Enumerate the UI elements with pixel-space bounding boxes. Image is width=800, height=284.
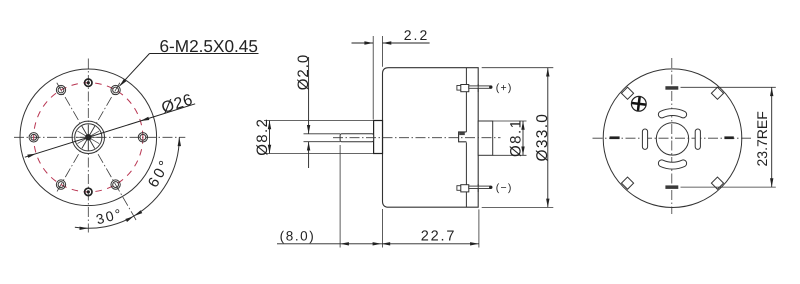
crimp tab lower-right (rear view) <box>711 177 723 189</box>
svg-text:60°: 60° <box>145 156 175 191</box>
vent slot top <box>658 109 686 118</box>
terminal tab (+) <box>457 86 461 91</box>
bearing notch at endbell center <box>459 132 467 142</box>
rim slot right (rear view) <box>724 136 733 139</box>
dimension Ø8.1 extension lines <box>493 120 527 122</box>
dimension (8.0) extension line <box>339 145 341 248</box>
tapped hole M2.5 upper-left (120 deg) <box>56 85 65 94</box>
rear bearing boss circle <box>656 123 688 155</box>
vertical centerline (front view) <box>87 59 89 233</box>
dimension 23.7REF extension lines <box>681 86 776 88</box>
dimension 23.7REF <box>771 87 773 187</box>
svg-text:(8.0): (8.0) <box>280 228 316 243</box>
rim slot left (rear view) <box>610 136 620 139</box>
endbell face line restored over pins <box>477 84 479 92</box>
vent slot bottom <box>658 160 686 169</box>
dimension 22.7 extension lines <box>382 209 384 248</box>
tapped hole M2.5 lower-right (300 deg) <box>111 180 120 189</box>
dimension Ø33.0 <box>547 68 549 208</box>
diagonal centerline 60-240 (front view) <box>57 83 120 192</box>
cross-marked hole (rear view) <box>631 96 646 111</box>
dimension Ø8.2 <box>269 121 271 154</box>
dimension 22.7 <box>381 243 479 245</box>
rear view motor outline circle <box>603 69 742 208</box>
vent slot right <box>695 129 700 149</box>
dimension 2.2 <box>352 42 374 44</box>
svg-text:Ø2.0: Ø2.0 <box>295 54 312 91</box>
tapped hole M2.5 lower-left (240 deg) <box>56 180 65 189</box>
30 deg angular dimension arc <box>75 216 134 228</box>
front view knurled shaft hole <box>86 135 92 141</box>
svg-text:(−): (−) <box>496 182 513 194</box>
svg-text:Ø8.2: Ø8.2 <box>254 118 271 156</box>
svg-text:6-M2.5X0.45: 6-M2.5X0.45 <box>160 36 258 56</box>
dimension Ø8.1 <box>522 121 524 155</box>
svg-text:Ø33.0: Ø33.0 <box>534 113 551 162</box>
dimension Ø33.0 extension lines <box>482 67 554 69</box>
small hole top (90 deg) <box>85 79 92 86</box>
terminal pin (-) <box>469 186 491 188</box>
svg-text:22.7: 22.7 <box>421 228 456 244</box>
front view hub outer circle <box>72 121 104 153</box>
crimp tab upper-left (rear view) <box>621 87 633 99</box>
svg-text:Ø26: Ø26 <box>160 91 195 117</box>
svg-text:Ø8.1: Ø8.1 <box>507 118 524 157</box>
svg-text:2.2: 2.2 <box>404 27 429 43</box>
crimp tab lower-left (rear view) <box>621 177 633 189</box>
tapped hole M2.5 left (180 deg) <box>29 133 38 142</box>
dimension 2.2 extension lines <box>372 36 374 120</box>
svg-text:30°: 30° <box>94 205 124 227</box>
svg-text:23.7REF: 23.7REF <box>754 111 770 166</box>
dimension Ø8.2 extension lines <box>264 120 374 122</box>
leader line for Ø26 (through center) <box>25 104 195 157</box>
motor body outline (side view) <box>383 68 479 208</box>
horizontal centerline (front view) <box>14 136 185 138</box>
motor shaft Ø2.0 <box>340 134 374 142</box>
leader line for 6-M2.5X0.45 <box>150 53 259 55</box>
svg-text:(+): (+) <box>496 82 513 94</box>
bolt circle Ø26 (red dashed) <box>34 83 143 192</box>
dimension Ø2.0 <box>308 57 310 134</box>
front view motor outline circle <box>20 69 157 206</box>
vertical centerline (rear view) <box>671 58 673 214</box>
dimension Ø2.0 extension lines <box>304 133 341 135</box>
mounting slot top (rear view) <box>665 86 678 90</box>
small hole bottom (270 deg) <box>85 188 92 195</box>
terminal tab (-) <box>457 186 461 191</box>
horizontal centerline (side view) <box>333 137 501 139</box>
horizontal centerline (rear view) <box>593 137 752 139</box>
tapped hole M2.5 right (0 deg) <box>138 133 147 142</box>
diagonal centerline 120-300 (front view) <box>57 83 137 222</box>
tapped hole M2.5 upper-right (60 deg) <box>111 85 120 94</box>
front view hub inner circle <box>75 124 102 151</box>
vent slot left <box>642 129 647 149</box>
front bushing Ø8.2 <box>374 121 383 154</box>
mounting slot bottom (rear view) <box>665 185 678 189</box>
rear bearing boss Ø8.1 <box>478 121 493 155</box>
crimp tab upper-right (rear view) <box>711 87 723 99</box>
terminal pin (+) <box>469 86 491 88</box>
dimension (8.0) <box>277 243 381 245</box>
60 deg angular dimension arc <box>134 137 180 216</box>
endbell joint line (side view) <box>465 68 467 132</box>
